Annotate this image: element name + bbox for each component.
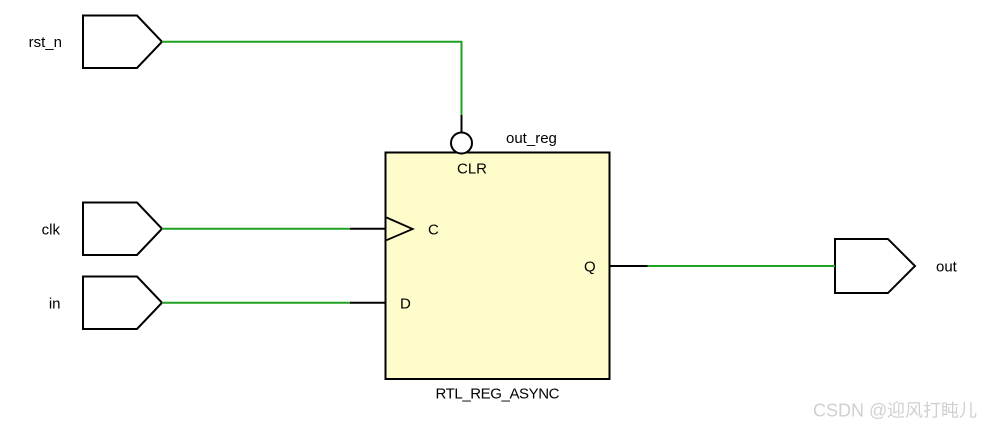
pin C stub wire	[350, 228, 386, 230]
input port clk	[83, 203, 162, 256]
svg-text:clk: clk	[42, 222, 61, 239]
svg-text:rst_n: rst_n	[29, 34, 62, 51]
svg-text:Q: Q	[584, 259, 596, 276]
svg-text:CSDN @: CSDN @	[813, 401, 887, 421]
svg-text:D: D	[400, 296, 411, 313]
svg-text:CLR: CLR	[457, 161, 487, 178]
pin CLR stub wire	[461, 115, 463, 133]
svg-text:C: C	[428, 222, 439, 239]
pin Q stub wire	[610, 265, 648, 267]
svg-text:out: out	[936, 259, 958, 276]
svg-text:RTL_REG_ASYNC: RTL_REG_ASYNC	[436, 386, 560, 403]
clock wedge	[387, 218, 413, 241]
net rst_n (green)	[162, 42, 462, 115]
net out (green)	[648, 265, 836, 267]
net clk (green)	[162, 228, 350, 230]
net in (green)	[162, 302, 350, 304]
input port in	[83, 277, 162, 330]
output port out	[835, 239, 915, 293]
pin CLR bubble	[451, 133, 472, 154]
svg-text:in: in	[49, 296, 61, 313]
svg-text:out_reg: out_reg	[506, 130, 557, 147]
pin D stub wire	[350, 302, 386, 304]
register out_reg body	[386, 153, 610, 380]
input port rst_n	[83, 16, 162, 69]
